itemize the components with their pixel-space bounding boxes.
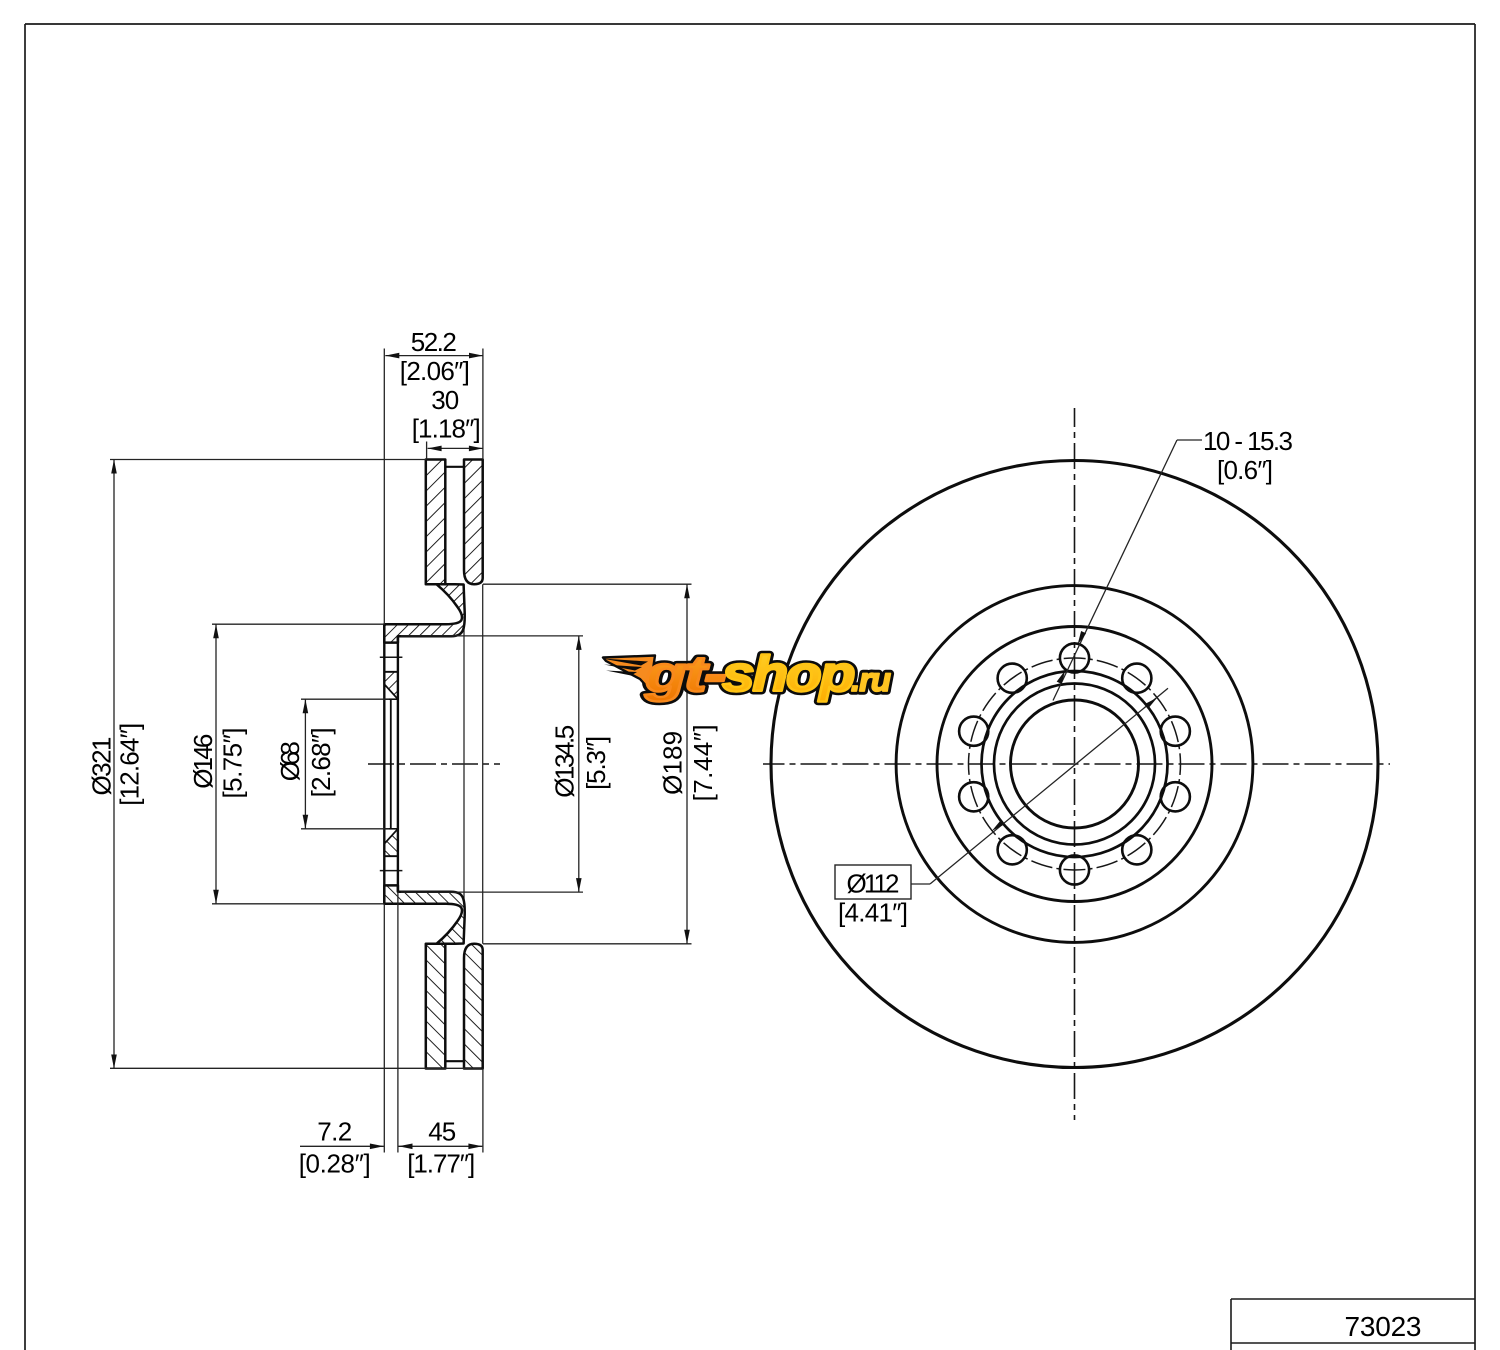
title block table	[1231, 1299, 1475, 1350]
dia 112 label box	[835, 865, 911, 899]
dia 189 extension lines	[483, 583, 692, 585]
svg-text:[4.41″]: [4.41″]	[838, 898, 908, 928]
dia 321 dimension line	[113, 460, 115, 1069]
svg-text:gt-: gt-	[644, 646, 726, 702]
dia 134.5 arrows	[576, 636, 582, 650]
hat wall and flange section (bottom, mirrored)	[384, 885, 464, 943]
svg-text:shop: shop	[722, 646, 854, 702]
hat wall and flange section (top)	[384, 584, 464, 642]
dimension texts	[86, 327, 717, 1179]
svg-text:Ø321: Ø321	[86, 737, 116, 796]
dia 146 extension lines	[212, 623, 384, 625]
10 bolt holes	[959, 643, 1190, 884]
dia 146 circle	[937, 627, 1212, 902]
hub step circle 1	[982, 671, 1168, 857]
7.2 arrow	[370, 1144, 384, 1150]
dia 189 circle	[896, 586, 1253, 943]
vent inner face projection line	[463, 584, 465, 944]
bore silhouette line	[390, 699, 392, 829]
svg-text:[0.6″]: [0.6″]	[1217, 455, 1273, 485]
dia 189 arrows	[684, 584, 690, 598]
svg-text:[2.68″]: [2.68″]	[306, 727, 336, 797]
svg-text:[2.06″]: [2.06″]	[400, 356, 470, 386]
hub section band between flange and bolt hole (top)	[384, 672, 398, 699]
dia 146 dimension line	[215, 624, 217, 904]
svg-text:[1.18″]: [1.18″]	[412, 414, 481, 444]
svg-text:7.2: 7.2	[317, 1117, 352, 1147]
dia 134.5 extension lines	[401, 635, 583, 637]
outboard friction plate section (top)	[464, 460, 483, 585]
30 dimension line	[428, 447, 483, 449]
center bore circle	[1011, 700, 1139, 828]
svg-text:[5.75″]: [5.75″]	[217, 728, 247, 799]
svg-text:30: 30	[431, 385, 459, 415]
logo fill layer	[644, 646, 891, 702]
45 dimension line	[399, 1145, 483, 1147]
hub section band (bottom)	[384, 829, 398, 856]
bolt hole axis tick (bottom)	[380, 870, 403, 872]
svg-text:[1.77″]: [1.77″]	[407, 1149, 475, 1179]
7.2 dimension line	[300, 1145, 384, 1147]
hub left face line	[383, 624, 385, 904]
svg-text:Ø134.5: Ø134.5	[549, 725, 579, 798]
bore edge (top)	[384, 698, 398, 700]
logo outline layer	[644, 646, 891, 702]
30 arrows	[428, 446, 442, 452]
vent slot ceiling (bottom)	[445, 1060, 464, 1062]
bolt circle dia 112 (dash-dot)	[969, 658, 1181, 870]
hub step circle 2	[994, 684, 1155, 845]
bore edge (bottom)	[384, 828, 398, 830]
dia 112 dimension diagonal line	[930, 688, 1168, 884]
svg-text:[0.28″]: [0.28″]	[299, 1149, 371, 1179]
dia 146 arrows	[213, 624, 219, 638]
svg-text:Ø146: Ø146	[188, 734, 218, 789]
30 extension line	[426, 442, 428, 460]
svg-text:73023: 73023	[1345, 1311, 1422, 1342]
52.2 extension lines	[383, 349, 385, 625]
hole size leader arrows	[1057, 631, 1086, 684]
vertical centerline	[1074, 408, 1076, 1120]
svg-text:[12.64″]: [12.64″]	[115, 723, 145, 806]
svg-text:52.2: 52.2	[411, 327, 457, 357]
7.2 and 45 extension lines	[383, 904, 385, 1153]
svg-text:45: 45	[428, 1117, 456, 1147]
inboard friction plate section (bottom)	[426, 944, 446, 1069]
svg-text:[7.44″]: [7.44″]	[688, 724, 718, 801]
bolt hole section edges (top)	[384, 642, 398, 644]
gt-shop.ru watermark logo	[602, 646, 891, 702]
bolt hole axis tick (top)	[380, 656, 403, 658]
svg-text:Ø112: Ø112	[847, 869, 900, 899]
dia 68 arrows	[303, 699, 309, 713]
45 arrows	[399, 1144, 413, 1150]
inboard friction plate section (top)	[426, 460, 446, 585]
outer diameter circle	[771, 461, 1378, 1068]
outboard face projection line	[482, 584, 484, 944]
52.2 arrows	[385, 353, 399, 359]
svg-text:Ø189: Ø189	[658, 731, 688, 795]
hole size leader line	[1053, 440, 1202, 701]
horizontal centerline	[763, 763, 1390, 765]
dia 68 extension lines	[301, 698, 389, 700]
svg-text:10 - 15.3: 10 - 15.3	[1203, 426, 1293, 456]
logo speed flames	[603, 656, 655, 691]
section centerline	[368, 763, 500, 765]
svg-text:.ru: .ru	[851, 661, 891, 698]
svg-text:[5.3″]: [5.3″]	[581, 736, 611, 790]
dia 321 arrows	[111, 460, 117, 474]
52.2 dimension line	[385, 355, 483, 357]
dia 134.5 dimension line	[578, 636, 580, 892]
dia 321 extension lines	[110, 459, 426, 461]
dia 68 dimension line	[304, 699, 306, 829]
vent slot ceiling (top)	[445, 466, 464, 468]
hub right face line	[397, 636, 399, 892]
outboard friction plate section (bottom)	[464, 944, 483, 1069]
svg-text:Ø68: Ø68	[275, 741, 305, 781]
dia 112 dimension arrows	[992, 698, 1157, 831]
dia 189 dimension line	[686, 584, 688, 944]
bolt hole section edges (bottom)	[384, 884, 398, 886]
